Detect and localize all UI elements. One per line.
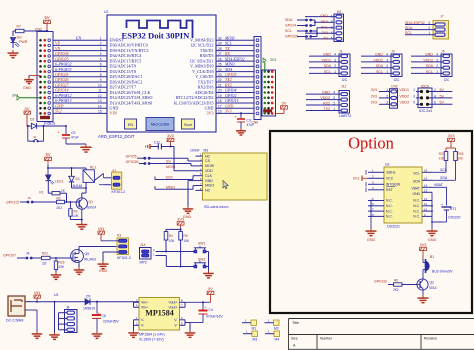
svg-text:3: 3 <box>331 26 333 30</box>
connector J3 I2C <box>361 50 402 82</box>
svg-text:7: 7 <box>100 68 102 72</box>
RTC chip U3 DS3231 <box>384 163 422 229</box>
resistor R6 <box>393 279 417 293</box>
svg-text:2: 2 <box>428 26 430 30</box>
svg-text:VDD2: VDD2 <box>373 58 383 62</box>
svg-text:1N5819: 1N5819 <box>44 122 56 126</box>
pullup resistor R26 <box>432 152 464 181</box>
svg-text:Boot: Boot <box>184 123 191 127</box>
svg-text:C3: C3 <box>247 119 251 123</box>
svg-text:1: 1 <box>386 88 388 92</box>
mounting hole M4 <box>265 330 280 342</box>
svg-text:R23: R23 <box>59 261 65 265</box>
svg-text:BUZ-9mm/3V: BUZ-9mm/3V <box>432 270 453 274</box>
svg-text:GPIO15: GPIO15 <box>6 200 19 204</box>
wire CN3 pin 5 <box>53 56 107 61</box>
svg-text:GND: GND <box>322 91 330 95</box>
wire main VIN rail <box>36 301 85 303</box>
power flag 3V3 at SD <box>167 134 174 148</box>
net VBAT wire <box>432 183 447 187</box>
svg-text:R26: R26 <box>458 152 464 156</box>
svg-text:N.C.: N.C. <box>386 199 393 203</box>
svg-text:SCL: SCL <box>376 70 383 74</box>
svg-text:3V3: 3V3 <box>270 58 276 62</box>
resistor R7 <box>16 25 25 40</box>
wire SCK to SD <box>155 176 196 180</box>
ground under C6 <box>92 331 103 338</box>
svg-text:M1: M1 <box>252 327 257 331</box>
svg-text:5V: 5V <box>45 152 50 157</box>
svg-text:10K: 10K <box>439 157 446 161</box>
svg-text:NC: NC <box>205 154 211 158</box>
svg-text:2: 2 <box>386 94 388 98</box>
svg-text:GND: GND <box>23 86 31 90</box>
svg-text:U2: U2 <box>104 10 108 14</box>
svg-text:2: 2 <box>333 101 335 105</box>
wire ESP32 pin 29 <box>216 41 255 46</box>
connector J5 I2C <box>411 50 452 82</box>
svg-text:C9: C9 <box>71 131 75 135</box>
wire drain to K3 <box>79 247 117 251</box>
power flag 5V <box>44 15 51 32</box>
wire ESP32 pin 24 <box>216 67 262 72</box>
wire CN3 pin 14 <box>53 103 107 108</box>
svg-text:SCL: SCL <box>285 29 292 33</box>
wire <box>13 31 47 36</box>
power 3V3 green <box>12 94 41 101</box>
svg-text:4: 4 <box>436 53 438 57</box>
power flag VIN at K3 <box>98 227 119 241</box>
label Option <box>348 134 394 153</box>
switch SW2 <box>194 258 209 268</box>
svg-text:SDA: SDA <box>413 180 421 184</box>
pullup resistor R27 <box>432 152 448 173</box>
svg-text:GND: GND <box>428 238 437 242</box>
ground left of C11 <box>146 144 150 149</box>
svg-text:SW2: SW2 <box>198 258 205 262</box>
svg-text:27: 27 <box>218 52 222 56</box>
svg-text:CS: CS <box>205 159 211 163</box>
wire ESP32 pin 18 <box>216 98 262 103</box>
svg-text:R22: R22 <box>42 252 48 256</box>
wire J14 pin1 to SW2 <box>156 256 196 267</box>
svg-text:KF301-2: KF301-2 <box>112 190 126 194</box>
svg-text:MISO: MISO <box>205 184 214 188</box>
svg-text:R7: R7 <box>17 25 21 29</box>
net SCL wire <box>432 168 447 173</box>
svg-text:10K: 10K <box>73 214 80 218</box>
svg-text:5V2: 5V2 <box>55 109 61 114</box>
mounting hole M1 <box>242 319 257 331</box>
transistor Q2 <box>417 279 437 296</box>
svg-text:SD-card-micro: SD-card-micro <box>204 205 228 209</box>
mounting hole M3 <box>243 330 258 342</box>
svg-text:GPIO26: GPIO26 <box>126 160 139 164</box>
MicroUSB connector <box>146 118 174 131</box>
svg-text:GND: GND <box>375 53 383 57</box>
svg-text:2: 2 <box>100 42 102 46</box>
wire ESP32 pin 22 <box>216 77 262 82</box>
svg-text:21: 21 <box>218 83 222 87</box>
svg-text:3: 3 <box>436 58 438 62</box>
header CN4 dual <box>262 70 276 116</box>
svg-text:Vin+: Vin+ <box>141 301 148 305</box>
wire J14 pin2 to SW1 <box>156 251 196 253</box>
svg-text:30: 30 <box>218 36 222 40</box>
wire to SD VDD <box>174 147 196 171</box>
svg-text:47uF: 47uF <box>71 136 79 140</box>
svg-text:J6: J6 <box>66 306 70 310</box>
header CN3 <box>35 28 53 122</box>
svg-text:SCL: SCL <box>321 25 328 29</box>
jumper block to K0 <box>285 18 334 39</box>
SD card module M3 <box>196 149 268 209</box>
svg-text:Q1: Q1 <box>89 200 94 204</box>
svg-text:Q2: Q2 <box>430 281 435 285</box>
svg-text:10K: 10K <box>458 157 465 161</box>
ground under U3 right <box>427 228 438 242</box>
wire ESP32 pin 30 <box>216 35 255 40</box>
power flag 5V near CN4 <box>276 102 288 114</box>
mounting hole M2 <box>265 319 280 331</box>
connector J14 MP2 <box>140 243 156 265</box>
capacitor C3 <box>234 112 254 128</box>
svg-text:1N5819: 1N5819 <box>83 307 95 311</box>
svg-text:VIN: VIN <box>110 111 117 116</box>
svg-text:N.C.: N.C. <box>386 215 393 219</box>
power flag 3V3 pullups <box>446 134 456 152</box>
ground under DC jack <box>32 331 43 338</box>
svg-text:GPIO32: GPIO32 <box>374 279 387 283</box>
power 3V3 for U3 <box>353 176 368 182</box>
wire CN3 pin 8 <box>53 72 107 77</box>
svg-text:J1: J1 <box>339 50 343 54</box>
svg-text:6: 6 <box>100 63 102 67</box>
svg-text:TX2: TX2 <box>323 107 330 111</box>
svg-text:VDD2: VDD2 <box>423 58 433 62</box>
svg-text:24: 24 <box>218 68 222 72</box>
svg-text:IDC-2x3: IDC-2x3 <box>419 109 432 113</box>
power flag 3V3 SW <box>166 218 184 232</box>
svg-text:6: 6 <box>434 101 436 105</box>
svg-text:GND: GND <box>412 192 420 196</box>
svg-text:Number: Number <box>320 337 333 341</box>
wire CN3 pin 7 <box>53 67 107 72</box>
wire ESP32 pin 28 <box>216 46 255 51</box>
svg-text:10K: 10K <box>169 239 176 243</box>
button EN <box>125 119 137 129</box>
svg-text:26: 26 <box>218 57 222 61</box>
svg-text:D1: D1 <box>76 177 80 181</box>
ground <box>8 50 19 58</box>
wire ESP32 pin 17 <box>216 103 262 108</box>
svg-text:M2: M2 <box>274 327 279 331</box>
power flag 5V relay <box>45 152 86 174</box>
wire ESP32 pin 26 <box>216 56 255 61</box>
svg-text:5V: 5V <box>440 88 445 92</box>
svg-text:VIN: VIN <box>34 291 41 295</box>
capacitor C9 <box>56 125 86 144</box>
power flag 5V out <box>207 287 214 302</box>
svg-text:4: 4 <box>333 91 335 95</box>
buzzer B1 <box>423 255 453 279</box>
svg-text:SDA: SDA <box>405 26 413 30</box>
svg-text:N.C.: N.C. <box>386 204 393 208</box>
svg-text:SDA: SDA <box>426 64 434 68</box>
svg-text:SCK: SCK <box>166 176 174 180</box>
svg-text:KF301-3: KF301-3 <box>117 256 131 260</box>
net GPIO32 <box>374 279 394 284</box>
ground under C9 <box>80 144 92 152</box>
svg-text:GND: GND <box>323 53 331 57</box>
svg-text:3: 3 <box>386 58 388 62</box>
ground for CN3 <box>23 76 41 90</box>
power flag VIN main <box>34 291 41 302</box>
svg-text:5: 5 <box>413 101 415 105</box>
svg-text:29: 29 <box>218 42 222 46</box>
diode D5 <box>83 295 139 311</box>
svg-text:RST: RST <box>386 188 393 192</box>
wire CN3 pin 6 <box>53 62 107 67</box>
net SDA wire <box>440 176 448 180</box>
svg-text:DS3231: DS3231 <box>387 225 400 229</box>
svg-text:I2C: I2C <box>394 78 400 82</box>
svg-text:VBAT: VBAT <box>411 187 420 191</box>
connector J7 <box>405 15 449 40</box>
svg-text:PWR: PWR <box>19 40 28 44</box>
wire ESP32 pin 21 <box>216 82 262 87</box>
svg-text:18: 18 <box>218 99 222 103</box>
svg-text:N.C.: N.C. <box>413 209 420 213</box>
wire ESP32 pin 27 <box>216 51 255 56</box>
svg-text:+: + <box>441 203 443 207</box>
svg-text:R27: R27 <box>439 152 445 156</box>
svg-text:10: 10 <box>424 208 428 212</box>
U3 right pin wires <box>422 169 442 228</box>
svg-text:13: 13 <box>98 99 102 103</box>
svg-text:R4: R4 <box>169 234 173 238</box>
ground for SD <box>183 181 196 219</box>
svg-text:2K2: 2K2 <box>393 288 399 292</box>
svg-text:SCL: SCL <box>413 172 420 176</box>
svg-text:1: 1 <box>436 70 438 74</box>
capacitor C4 <box>190 301 223 322</box>
svg-text:3V3: 3V3 <box>206 111 213 116</box>
diode D1 <box>69 168 87 189</box>
svg-text:Option: Option <box>348 134 394 153</box>
svg-text:2: 2 <box>386 64 388 68</box>
U3 left pin wires <box>366 169 384 228</box>
svg-text:CN2: CN2 <box>391 85 398 89</box>
svg-text:SDA: SDA <box>321 20 329 24</box>
resistor R22 <box>42 252 71 266</box>
jumper GPIO26/MOSI <box>126 160 196 169</box>
svg-text:3: 3 <box>428 21 430 25</box>
jumper J2 <box>28 126 44 142</box>
wire MISO to SD <box>155 185 196 189</box>
svg-text:32kHz: 32kHz <box>386 171 396 175</box>
svg-text:Size: Size <box>291 337 298 341</box>
svg-text:C6: C6 <box>102 314 106 318</box>
svg-text:EN: EN <box>75 35 81 40</box>
svg-text:2K2: 2K2 <box>57 206 63 210</box>
wire ESP32 pin 20 <box>216 88 262 93</box>
svg-text:9: 9 <box>100 78 102 82</box>
svg-text:1: 1 <box>428 31 430 35</box>
svg-text:22: 22 <box>218 78 222 82</box>
svg-text:3: 3 <box>413 94 415 98</box>
wire CN3 pin 4 <box>53 51 107 56</box>
svg-text:R2: R2 <box>57 196 61 200</box>
svg-text:23: 23 <box>218 73 222 77</box>
svg-text:J11: J11 <box>341 85 346 89</box>
svg-text:Title: Title <box>292 321 299 325</box>
connector K0 <box>305 10 344 42</box>
jumper GPIO5/SS <box>126 154 196 163</box>
svg-text:D5: D5 <box>86 295 90 299</box>
wire K3 pin3 to ground <box>98 252 119 273</box>
svg-text:GPIO4: GPIO4 <box>285 24 296 28</box>
svg-text:GPIO5: GPIO5 <box>126 154 137 158</box>
label ARD_ESP12_DOIT <box>98 134 135 139</box>
resistor R5 <box>179 232 190 268</box>
svg-text:3V3: 3V3 <box>167 134 174 138</box>
svg-text:8: 8 <box>100 73 102 77</box>
capacitor C6 <box>92 302 119 331</box>
ground under Q2 <box>418 295 429 303</box>
svg-text:J3: J3 <box>391 50 395 54</box>
svg-text:3V3: 3V3 <box>177 218 184 222</box>
svg-text:MISO: MISO <box>166 185 175 189</box>
mouse cursor <box>223 181 228 189</box>
svg-text:10: 10 <box>98 83 102 87</box>
svg-text:K3: K3 <box>117 234 121 238</box>
wire CN3 pin 13 <box>53 98 107 103</box>
svg-text:SDA: SDA <box>376 64 384 68</box>
resistor R23 <box>54 258 65 272</box>
svg-text:10K: 10K <box>183 239 190 243</box>
ground under J6 <box>49 332 60 339</box>
svg-text:5V: 5V <box>25 106 30 111</box>
svg-text:GND: GND <box>320 14 328 18</box>
svg-text:S9014: S9014 <box>87 205 96 209</box>
svg-text:B1: B1 <box>430 255 434 259</box>
header CN6 single row <box>252 37 262 125</box>
svg-text:3V3: 3V3 <box>448 134 455 138</box>
svg-text:GPIO25: GPIO25 <box>285 35 298 39</box>
svg-text:VCC: VCC <box>386 177 394 181</box>
power flag 3V3 buzzer <box>420 243 427 259</box>
ground under Q5 <box>74 264 85 274</box>
svg-text:4: 4 <box>434 94 436 98</box>
svg-text:VDD1: VDD1 <box>321 58 331 62</box>
wire CN3 pin 11 <box>53 88 107 93</box>
capacitor C11 <box>150 140 200 152</box>
button Boot <box>182 119 195 129</box>
svg-text:J5: J5 <box>28 196 32 200</box>
svg-text:Vin+: Vin+ <box>141 306 148 310</box>
option box border <box>270 131 472 313</box>
svg-text:M4: M4 <box>275 338 280 342</box>
svg-text:SCL: SCL <box>426 70 433 74</box>
svg-text:2: 2 <box>436 64 438 68</box>
svg-text:15: 15 <box>424 177 428 181</box>
ground under C3 <box>236 128 246 135</box>
svg-text:4: 4 <box>100 52 102 56</box>
svg-text:14: 14 <box>98 104 102 108</box>
svg-text:Vout+: Vout+ <box>168 306 177 310</box>
header J6 <box>54 293 77 333</box>
svg-text:J2: J2 <box>33 135 37 139</box>
wire ESP32 pin 25 <box>216 62 255 67</box>
svg-text:11: 11 <box>424 202 427 206</box>
svg-text:15: 15 <box>98 110 102 114</box>
svg-text:ARD_ESP12_DOIT: ARD_ESP12_DOIT <box>98 134 135 139</box>
svg-text:5V: 5V <box>44 15 49 20</box>
LED1 <box>46 175 64 193</box>
MP1584 module U1 <box>134 298 211 342</box>
svg-text:C4: C4 <box>209 308 213 312</box>
svg-text:Vout+: Vout+ <box>168 301 177 305</box>
svg-text:K0: K0 <box>337 10 341 14</box>
svg-text:47uF: 47uF <box>247 123 255 127</box>
svg-text:R6: R6 <box>394 279 398 283</box>
svg-text:GND: GND <box>99 269 108 273</box>
svg-text:4: 4 <box>334 53 336 57</box>
svg-text:CLK: CLK <box>205 174 213 178</box>
wire CN3 pin 10 <box>53 82 107 87</box>
svg-text:16: 16 <box>424 169 428 173</box>
svg-text:SW1: SW1 <box>198 241 205 245</box>
svg-text:C11: C11 <box>154 140 160 144</box>
wire CN3 pin 12 <box>53 93 107 98</box>
svg-text:3V3: 3V3 <box>420 243 427 247</box>
svg-text:12: 12 <box>98 94 102 98</box>
ground under R23 <box>51 272 62 279</box>
svg-text:SCL: SCL <box>440 168 447 172</box>
svg-text:VBAT: VBAT <box>434 183 444 187</box>
svg-text:VDD3: VDD3 <box>399 101 409 105</box>
svg-text:3: 3 <box>334 58 336 62</box>
svg-text:LED1: LED1 <box>55 180 64 184</box>
svg-text:5V: 5V <box>324 37 329 41</box>
svg-text:11: 11 <box>98 89 102 93</box>
svg-text:2k2: 2k2 <box>17 36 23 40</box>
svg-text:SCL: SCL <box>405 31 412 35</box>
svg-text:MP1584: MP1584 <box>145 309 173 318</box>
wire CN3 pin 15 <box>53 109 107 114</box>
svg-text:3V3: 3V3 <box>371 88 377 92</box>
svg-text:3: 3 <box>386 101 388 105</box>
switch SW1 <box>194 241 209 253</box>
terminal K1 <box>112 169 126 194</box>
svg-text:N.C.: N.C. <box>413 215 420 219</box>
svg-text:ESP32 Doit 30PIN: ESP32 Doit 30PIN <box>122 31 191 41</box>
wire CN3 pin 3 <box>53 46 107 51</box>
svg-text:U1: U1 <box>54 293 59 297</box>
MOSFET Q5 <box>71 250 97 264</box>
svg-text:25: 25 <box>218 63 222 67</box>
svg-text:12: 12 <box>424 197 428 201</box>
svg-text:SDA: SDA <box>324 64 332 68</box>
diode D2 <box>27 118 56 129</box>
ground under MP1584 right <box>185 330 196 337</box>
svg-text:2: 2 <box>334 64 336 68</box>
svg-text:RX2: RX2 <box>323 101 330 105</box>
svg-text:J14: J14 <box>140 243 146 247</box>
svg-text:VIN: VIN <box>98 227 105 231</box>
ground under U3 left <box>366 228 377 242</box>
